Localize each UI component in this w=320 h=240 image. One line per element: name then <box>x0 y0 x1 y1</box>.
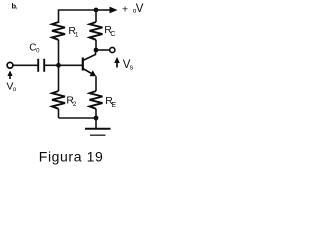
resistor R1 <box>52 22 65 40</box>
resistor RC <box>90 10 103 50</box>
svg-text:+: + <box>122 4 128 16</box>
label +oV supply <box>122 3 144 15</box>
svg-text:C: C <box>110 31 115 38</box>
label R2 <box>66 95 76 109</box>
resistor RE <box>90 91 103 118</box>
wire capacitor to base node <box>44 64 58 66</box>
label C0 <box>29 42 40 54</box>
svg-text:s: s <box>130 65 134 72</box>
node base junction <box>56 63 61 68</box>
capacitor C0 <box>38 59 44 72</box>
label R1 <box>68 25 79 38</box>
label v0 <box>6 81 17 93</box>
arrow v0 <box>7 71 12 80</box>
ground <box>85 118 111 135</box>
svg-text:1: 1 <box>75 31 79 38</box>
label RC <box>104 24 115 38</box>
svg-text:V: V <box>136 3 144 15</box>
transistor Q1 <box>83 50 96 91</box>
svg-text:E: E <box>111 102 116 109</box>
node ground junction <box>94 116 99 121</box>
input terminal circle v0 <box>7 62 13 68</box>
wire R1 to base node <box>58 40 60 66</box>
arrow Vs <box>114 57 120 68</box>
svg-text:o: o <box>13 87 17 93</box>
svg-text:Figura 19: Figura 19 <box>39 149 104 165</box>
svg-text:2: 2 <box>73 101 77 108</box>
wire base <box>59 64 83 66</box>
wire top rail <box>59 10 97 23</box>
resistor R2 <box>52 65 65 118</box>
label RE <box>105 95 116 109</box>
wire to output terminal <box>96 49 110 51</box>
wire bottom rail <box>59 117 97 119</box>
svg-text:0: 0 <box>36 48 40 54</box>
supply arrow <box>96 7 118 14</box>
label Vs <box>123 59 134 72</box>
node top junction <box>94 8 99 13</box>
node collector/output junction <box>94 48 99 53</box>
wire input to capacitor <box>13 64 38 66</box>
output terminal circle <box>110 47 115 52</box>
